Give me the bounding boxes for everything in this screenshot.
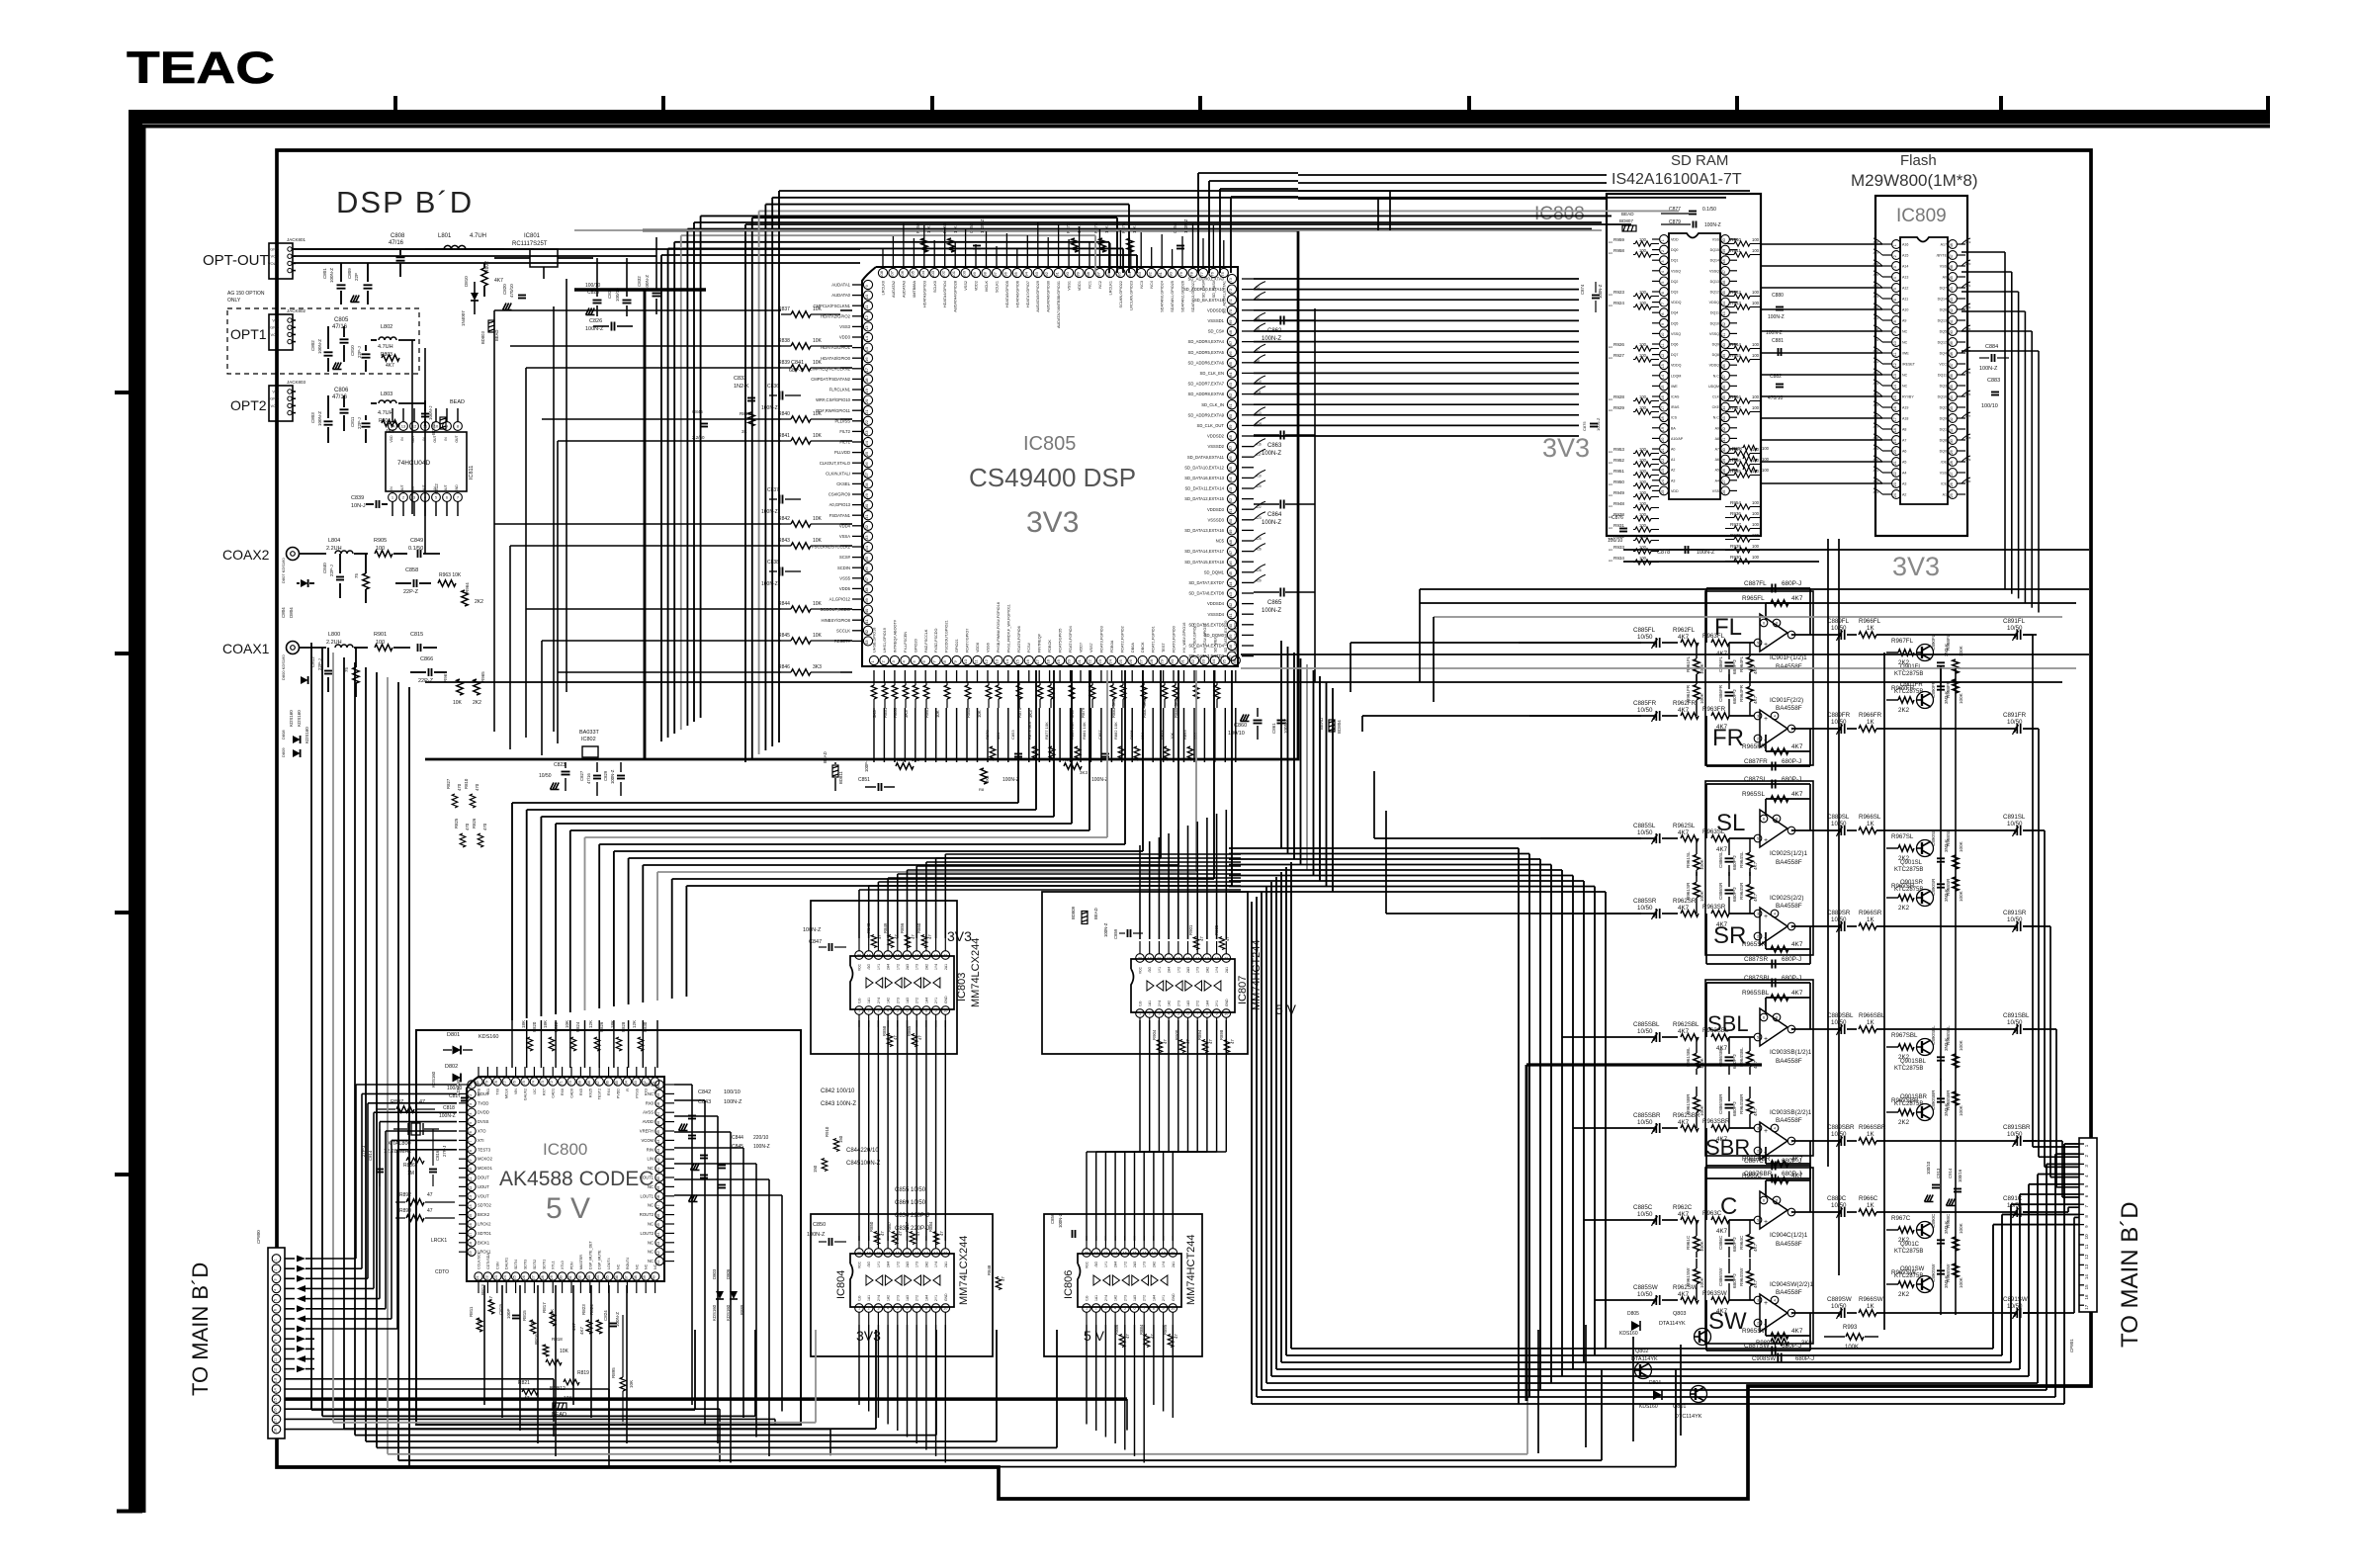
svg-text:DQ6: DQ6 bbox=[1671, 343, 1678, 347]
svg-text:XTL1: XTL1 bbox=[552, 1261, 556, 1269]
svg-text:R926: R926 bbox=[1613, 342, 1624, 347]
svg-text:100: 100 bbox=[1639, 534, 1647, 539]
diodes D803 D806 KDS160 bbox=[712, 1268, 744, 1321]
svg-text:4K7: 4K7 bbox=[1753, 665, 1758, 674]
svg-text:10: 10 bbox=[864, 294, 869, 299]
svg-text:100P-J: 100P-J bbox=[864, 758, 869, 772]
svg-text:14: 14 bbox=[915, 1251, 918, 1255]
svg-text:1Y3: 1Y3 bbox=[915, 964, 919, 970]
svg-text:R952: R952 bbox=[1613, 458, 1624, 463]
svg-text:KDS160: KDS160 bbox=[305, 727, 309, 743]
svg-text:100N-Z: 100N-Z bbox=[807, 1232, 826, 1238]
svg-text:10N-J: 10N-J bbox=[351, 503, 366, 509]
svg-text:1A3: 1A3 bbox=[1186, 1001, 1190, 1006]
svg-text:R965SBL: R965SBL bbox=[1742, 990, 1770, 997]
svg-text:DQ0: DQ0 bbox=[1940, 450, 1947, 454]
svg-text:C843 100N-Z: C843 100N-Z bbox=[821, 1101, 856, 1107]
svg-text:150: 150 bbox=[838, 1135, 843, 1143]
svg-text:6: 6 bbox=[469, 1131, 473, 1133]
svg-text:HV_WE#,GPIO16: HV_WE#,GPIO16 bbox=[1182, 623, 1186, 653]
svg-text:DQ9: DQ9 bbox=[1940, 417, 1947, 421]
svg-text:15: 15 bbox=[2084, 1284, 2089, 1290]
svg-text:10/50: 10/50 bbox=[2007, 1019, 2023, 1026]
svg-text:25: 25 bbox=[864, 451, 869, 456]
svg-text:100: 100 bbox=[1752, 394, 1760, 399]
svg-text:14: 14 bbox=[469, 1204, 473, 1208]
wire top pins risers bbox=[883, 222, 1224, 255]
svg-text:HDATA5/GPIO5: HDATA5/GPIO5 bbox=[1005, 281, 1009, 307]
resistor R963FR 4K7 bbox=[1702, 706, 1754, 731]
svg-text:4K7: 4K7 bbox=[1753, 1243, 1758, 1252]
svg-text:COAX1: COAX1 bbox=[222, 641, 270, 656]
svg-text:TEST: TEST bbox=[1162, 643, 1166, 653]
IC800 right pins bbox=[640, 1081, 674, 1265]
svg-text:470: 470 bbox=[465, 823, 470, 830]
bead BD809 bbox=[1071, 906, 1098, 923]
svg-text:1: 1 bbox=[1139, 1011, 1141, 1015]
svg-text:3: 3 bbox=[1757, 1126, 1759, 1130]
svg-text:24: 24 bbox=[864, 440, 869, 445]
svg-text:20: 20 bbox=[1138, 956, 1142, 960]
svg-text:5: 5 bbox=[1177, 1011, 1179, 1015]
svg-text:100: 100 bbox=[1639, 490, 1647, 495]
svg-text:DTC114YK: DTC114YK bbox=[1675, 1414, 1702, 1420]
svg-text:9: 9 bbox=[935, 1306, 937, 1310]
svg-text:8: 8 bbox=[274, 1329, 278, 1331]
svg-text:25: 25 bbox=[1118, 658, 1123, 663]
svg-text:2: 2 bbox=[1757, 934, 1759, 938]
svg-text:18: 18 bbox=[1046, 658, 1051, 663]
svg-text:A5: A5 bbox=[1715, 469, 1719, 473]
svg-text:5 V: 5 V bbox=[546, 1192, 590, 1225]
IC805 left pull-up resistors R837-R846 bbox=[778, 306, 840, 675]
svg-text:C810: C810 bbox=[350, 345, 355, 356]
svg-text:LRCLK0: LRCLK0 bbox=[882, 281, 886, 295]
resistor R966SR 1K bbox=[1859, 910, 2015, 929]
svg-text:D801: D801 bbox=[447, 1032, 460, 1038]
svg-text:68: 68 bbox=[587, 1081, 591, 1085]
svg-text:100: 100 bbox=[1639, 342, 1647, 347]
svg-text:C890C: C890C bbox=[1931, 1213, 1936, 1228]
svg-text:R964FL: R964FL bbox=[1739, 655, 1744, 672]
svg-text:C889SBL: C889SBL bbox=[1827, 1012, 1854, 1019]
svg-text:10/50: 10/50 bbox=[1831, 1303, 1847, 1310]
svg-text:64: 64 bbox=[624, 1081, 628, 1085]
svg-text:R948: R948 bbox=[1613, 501, 1624, 506]
resistor R890 47 bbox=[395, 1208, 455, 1221]
svg-text:C887SL: C887SL bbox=[1744, 776, 1768, 783]
svg-text:MASTER: MASTER bbox=[579, 1255, 583, 1269]
svg-text:R882 10K: R882 10K bbox=[1113, 722, 1118, 740]
svg-text:100N-Z: 100N-Z bbox=[615, 1312, 620, 1327]
svg-text:2A1: 2A1 bbox=[1225, 967, 1229, 973]
svg-text:19: 19 bbox=[864, 388, 869, 392]
svg-text:30: 30 bbox=[1950, 439, 1954, 443]
svg-text:SD_ADDR4,EXTA4: SD_ADDR4,EXTA4 bbox=[1188, 339, 1225, 344]
wire OPT-OUT long horizontals bbox=[294, 249, 860, 263]
svg-text:19: 19 bbox=[469, 1251, 473, 1255]
svg-text:1A1: 1A1 bbox=[867, 1295, 871, 1301]
svg-text:2Y2: 2Y2 bbox=[915, 1295, 919, 1301]
svg-text:DAUX1: DAUX1 bbox=[505, 1258, 509, 1269]
svg-text:IC808: IC808 bbox=[1534, 204, 1585, 224]
svg-text:C885FL: C885FL bbox=[1633, 627, 1656, 634]
svg-text:R963 10K: R963 10K bbox=[439, 572, 462, 578]
resistor R892 47 bbox=[395, 1192, 455, 1205]
svg-text:4K7: 4K7 bbox=[1678, 1119, 1690, 1126]
svg-text:4: 4 bbox=[1774, 1126, 1776, 1130]
svg-text:40: 40 bbox=[1722, 343, 1726, 347]
svg-text:680P-J: 680P-J bbox=[1732, 1101, 1737, 1116]
capacitor C880 100N-Z bbox=[1768, 293, 1785, 320]
svg-text:100N-Z: 100N-Z bbox=[761, 581, 778, 587]
svg-text:17: 17 bbox=[469, 1233, 473, 1237]
capacitor C831 100/10 bbox=[607, 258, 632, 316]
svg-text:VDDQ: VDDQ bbox=[1709, 364, 1720, 368]
svg-text:C891SBL: C891SBL bbox=[2003, 1012, 2030, 1019]
svg-text:1: 1 bbox=[858, 1008, 860, 1012]
svg-text:BEAD: BEAD bbox=[1621, 212, 1634, 217]
resistor R964SBL 4K7 shunt bbox=[1739, 1037, 1758, 1075]
IC804 bottom pins bbox=[855, 1304, 950, 1325]
svg-text:D805: D805 bbox=[1627, 1311, 1639, 1317]
svg-text:26: 26 bbox=[522, 1275, 526, 1279]
svg-text:1K: 1K bbox=[1867, 1019, 1874, 1026]
svg-text:100: 100 bbox=[1762, 446, 1770, 451]
svg-text:9: 9 bbox=[1163, 1306, 1165, 1310]
diode D810 1N4007 bbox=[461, 276, 479, 326]
svg-text:R966SR: R966SR bbox=[1859, 910, 1882, 916]
svg-text:VDDQ: VDDQ bbox=[1671, 364, 1682, 368]
svg-text:6: 6 bbox=[1763, 1015, 1765, 1019]
svg-text:17: 17 bbox=[1893, 417, 1897, 421]
svg-text:62: 62 bbox=[1228, 392, 1233, 397]
svg-text:BEAD: BEAD bbox=[1093, 908, 1098, 919]
schematic frame bbox=[277, 150, 2091, 1499]
svg-text:24: 24 bbox=[1107, 658, 1112, 663]
svg-text:8: 8 bbox=[1776, 817, 1778, 821]
svg-text:57: 57 bbox=[1228, 445, 1233, 450]
svg-text:C886SR: C886SR bbox=[1718, 882, 1723, 900]
svg-text:100N-Z: 100N-Z bbox=[724, 1099, 742, 1105]
svg-text:VDD: VDD bbox=[1671, 238, 1679, 242]
svg-text:10/50: 10/50 bbox=[1637, 634, 1653, 641]
svg-text:470: 470 bbox=[482, 823, 487, 830]
svg-text:A4: A4 bbox=[1609, 526, 1612, 530]
svg-text:IC903SB(1/2)1: IC903SB(1/2)1 bbox=[1770, 1049, 1812, 1056]
border top tick marks bbox=[395, 96, 2268, 110]
wire bus top-left nested group A bbox=[661, 216, 1612, 741]
svg-text:5: 5 bbox=[1757, 641, 1759, 645]
svg-text:16: 16 bbox=[896, 953, 900, 957]
capacitor C886FR 680P-J shunt bbox=[1718, 674, 1737, 716]
svg-text:BEAD: BEAD bbox=[450, 399, 465, 405]
resistor R821 47 bbox=[518, 1380, 538, 1402]
wire left area verticals bbox=[412, 279, 566, 732]
resistor R964FL 4K7 shunt bbox=[1739, 643, 1758, 680]
svg-text:C805: C805 bbox=[334, 317, 349, 323]
svg-text:100N-Z: 100N-Z bbox=[1262, 520, 1281, 526]
svg-text:SD_DATA15,EXTA18: SD_DATA15,EXTA18 bbox=[1184, 560, 1224, 565]
svg-text:A10/AP: A10/AP bbox=[1671, 437, 1684, 441]
svg-text:49: 49 bbox=[1722, 249, 1726, 253]
resistor R806 1M bbox=[403, 1158, 424, 1176]
svg-text:14: 14 bbox=[1142, 1251, 1146, 1255]
svg-text:39: 39 bbox=[864, 597, 869, 602]
svg-text:94: 94 bbox=[1023, 271, 1028, 276]
svg-text:33: 33 bbox=[864, 535, 869, 540]
svg-text:100: 100 bbox=[1752, 290, 1760, 295]
svg-text:72: 72 bbox=[1228, 288, 1233, 293]
svg-text:10/50: 10/50 bbox=[1637, 829, 1653, 836]
svg-text:C885SL: C885SL bbox=[1633, 823, 1656, 829]
wire buffer column links IC807 to IC806 bbox=[1087, 1020, 1226, 1241]
svg-text:CP801: CP801 bbox=[2069, 1339, 2074, 1352]
svg-text:47: 47 bbox=[1163, 1039, 1168, 1044]
svg-text:99: 99 bbox=[972, 271, 977, 276]
svg-text:18: 18 bbox=[1661, 416, 1665, 420]
svg-text:C914: C914 bbox=[1948, 1168, 1953, 1178]
svg-text:MM74LCX244: MM74LCX244 bbox=[958, 1236, 970, 1305]
svg-text:A12: A12 bbox=[1902, 287, 1908, 291]
resistor R964FR 4K7 shunt bbox=[1739, 674, 1758, 716]
capacitor C841 68P-J bbox=[789, 360, 804, 374]
buffer IC807 MM74HCT244 body bbox=[1131, 959, 1235, 1012]
svg-text:32: 32 bbox=[1190, 658, 1195, 663]
capacitor C801 100N-Z bbox=[322, 263, 346, 305]
wire long horizontals below DSP box bbox=[425, 654, 2089, 682]
svg-text:4: 4 bbox=[887, 1008, 889, 1012]
svg-text:73: 73 bbox=[1228, 277, 1233, 282]
svg-text:100: 100 bbox=[1752, 301, 1760, 305]
svg-text:23: 23 bbox=[1097, 658, 1102, 663]
capacitor C886SBL 680P-J shunt bbox=[1718, 1037, 1737, 1075]
svg-text:3: 3 bbox=[274, 1279, 278, 1281]
transistor Q901SW KTC2875B bbox=[1894, 1266, 1934, 1293]
svg-text:1Y1: 1Y1 bbox=[877, 964, 881, 970]
svg-text:IC903SB(2/2)1: IC903SB(2/2)1 bbox=[1770, 1109, 1812, 1116]
svg-text:A15: A15 bbox=[1902, 254, 1908, 258]
svg-text:65: 65 bbox=[1228, 361, 1233, 366]
svg-text:C808: C808 bbox=[391, 233, 405, 239]
capacitor C826 100N-Z bbox=[585, 318, 633, 332]
svg-text:CLKIN,XTALI: CLKIN,XTALI bbox=[826, 471, 850, 476]
op-amp group box SBL SBR bbox=[1705, 980, 1813, 1156]
resistor R965SW 4K7 feedback bbox=[1742, 1328, 1803, 1339]
IC805 left decoupling caps C836-C838 bbox=[761, 384, 801, 587]
svg-text:TO MAIN B´D: TO MAIN B´D bbox=[188, 1263, 213, 1396]
svg-text:TEST2: TEST2 bbox=[598, 1089, 602, 1099]
svg-text:100N-Z: 100N-Z bbox=[1262, 608, 1281, 614]
svg-text:C840: C840 bbox=[322, 563, 327, 573]
output capacitor C891SBR 10/50 bbox=[2003, 1124, 2037, 1147]
svg-text:47: 47 bbox=[1950, 254, 1954, 258]
svg-text:A22: A22 bbox=[1965, 305, 1971, 309]
svg-text:18K: 18K bbox=[543, 1020, 548, 1028]
resistor R963SBL 4K7 bbox=[1702, 1027, 1754, 1052]
svg-text:R827: R827 bbox=[446, 778, 451, 789]
wire buffers bottom to bottom bus bbox=[859, 1325, 1173, 1463]
svg-text:DQ8: DQ8 bbox=[1712, 353, 1719, 357]
svg-text:R929: R929 bbox=[1613, 405, 1624, 410]
svg-text:20: 20 bbox=[1661, 438, 1665, 442]
caps C913 C914 100/16 bbox=[1925, 1161, 1963, 1205]
svg-text:7: 7 bbox=[1893, 309, 1897, 311]
svg-text:20: 20 bbox=[1893, 450, 1897, 454]
svg-text:A16: A16 bbox=[1902, 243, 1908, 247]
svg-text:32: 32 bbox=[577, 1275, 581, 1279]
label IC901F(2/2) bbox=[1770, 697, 1803, 712]
resistor R966SW 1K bbox=[1859, 1296, 2015, 1316]
svg-text:680P-J: 680P-J bbox=[1732, 887, 1737, 902]
svg-text:HDATA3/GPIO3: HDATA3/GPIO3 bbox=[922, 281, 926, 307]
svg-text:14: 14 bbox=[1004, 658, 1009, 663]
svg-text:42: 42 bbox=[1722, 322, 1726, 326]
resistor R966FL 1K bbox=[1859, 618, 2015, 638]
svg-text:R968SR: R968SR bbox=[1946, 878, 1951, 896]
svg-text:2: 2 bbox=[469, 1094, 473, 1096]
svg-text:100N-Z: 100N-Z bbox=[439, 1113, 456, 1119]
svg-text:11: 11 bbox=[1661, 343, 1665, 347]
svg-text:KTC2875B: KTC2875B bbox=[1894, 689, 1923, 695]
svg-text:D802: D802 bbox=[445, 1064, 458, 1070]
diode D802 bbox=[445, 1064, 461, 1083]
svg-text:A0: A0 bbox=[1671, 448, 1675, 452]
resistor R852 3K3 bbox=[895, 757, 920, 769]
svg-text:XTL0: XTL0 bbox=[561, 1261, 565, 1269]
wire codec right nested to buffers bbox=[674, 1085, 782, 1463]
svg-text:R924: R924 bbox=[1613, 301, 1624, 305]
svg-text:VDD1: VDD1 bbox=[1078, 281, 1082, 291]
svg-text:6: 6 bbox=[1763, 1198, 1765, 1202]
svg-text:16: 16 bbox=[1893, 406, 1897, 410]
wire feedback loop SBL bbox=[1706, 983, 1822, 1037]
svg-text:18: 18 bbox=[864, 378, 869, 383]
svg-text:19: 19 bbox=[1148, 956, 1152, 960]
svg-text:MM74HCT244: MM74HCT244 bbox=[1185, 1234, 1197, 1305]
inverter IC811 74HCU04D bbox=[386, 408, 475, 516]
svg-text:17: 17 bbox=[886, 1251, 890, 1255]
caps C842 C843 list right bbox=[821, 1089, 856, 1107]
svg-text:R: R bbox=[626, 1089, 630, 1091]
svg-text:VSS: VSS bbox=[1940, 265, 1948, 269]
svg-text:23: 23 bbox=[1893, 482, 1897, 486]
svg-text:R8: R8 bbox=[979, 787, 985, 792]
bead BD804 bbox=[1319, 717, 1342, 734]
IC804 top resistors 47 bbox=[869, 1221, 944, 1244]
svg-text:33: 33 bbox=[1950, 406, 1954, 410]
svg-text:42: 42 bbox=[1950, 308, 1954, 312]
svg-text:16: 16 bbox=[896, 1251, 900, 1255]
capacitor C849 0.1/50 bbox=[408, 538, 440, 558]
svg-text:96: 96 bbox=[1002, 271, 1007, 276]
svg-text:100: 100 bbox=[1752, 511, 1760, 516]
svg-text:18: 18 bbox=[876, 1251, 880, 1255]
svg-text:66: 66 bbox=[1228, 351, 1233, 356]
svg-text:A5: A5 bbox=[1902, 461, 1906, 465]
capacitor C887SL 680P-J feedback bbox=[1744, 776, 1801, 789]
svg-text:16: 16 bbox=[2084, 1294, 2089, 1300]
svg-text:+: + bbox=[1764, 642, 1768, 649]
svg-text:C885SBR: C885SBR bbox=[1633, 1112, 1661, 1119]
svg-text:NC: NC bbox=[648, 1240, 654, 1245]
IC807 buffer triangles bbox=[1147, 981, 1221, 991]
svg-text:BD809: BD809 bbox=[1071, 906, 1076, 919]
svg-text:C827: C827 bbox=[579, 770, 584, 781]
svg-text:SD_WE#: SD_WE# bbox=[1213, 636, 1217, 653]
svg-text:C845: C845 bbox=[732, 1144, 743, 1150]
svg-text:R905: R905 bbox=[374, 538, 387, 544]
svg-text:/OE: /OE bbox=[1941, 461, 1948, 465]
svg-text:DQ7: DQ7 bbox=[1671, 353, 1678, 357]
resistor R967 10K 2K2 bbox=[443, 671, 485, 706]
border left bar bbox=[117, 110, 144, 1513]
svg-text:SD_ADDR8,EXTA8: SD_ADDR8,EXTA8 bbox=[1188, 392, 1225, 396]
svg-text:100N-Z: 100N-Z bbox=[1262, 451, 1281, 457]
svg-text:R803: R803 bbox=[381, 352, 392, 358]
svg-text:IC804: IC804 bbox=[835, 1270, 847, 1299]
codec top pull resistors 18K 12K bbox=[521, 1020, 648, 1051]
IC806 buffer triangles bbox=[1093, 1275, 1168, 1285]
svg-text:R9: R9 bbox=[1732, 457, 1738, 462]
svg-text:12K: 12K bbox=[588, 1020, 593, 1028]
svg-text:100K: 100K bbox=[1959, 840, 1963, 852]
capacitor C846 2.2/50 bbox=[692, 409, 708, 440]
svg-text:C804: C804 bbox=[281, 607, 286, 618]
svg-text:58: 58 bbox=[1228, 434, 1233, 439]
IC800 part number text bbox=[499, 1140, 654, 1225]
resistor R968SR 100K bbox=[1946, 877, 1963, 902]
diodes KDS160 column D808 D809 bbox=[281, 710, 309, 757]
svg-text:4K7: 4K7 bbox=[579, 1326, 584, 1335]
svg-text:51: 51 bbox=[656, 1168, 660, 1172]
svg-text:14: 14 bbox=[1195, 956, 1199, 960]
svg-text:VSS: VSS bbox=[1712, 489, 1720, 493]
svg-text:100: 100 bbox=[1752, 555, 1760, 560]
svg-text:NC: NC bbox=[648, 1259, 654, 1263]
IC805 right net stubs bbox=[1254, 282, 1265, 583]
svg-text:2Y3: 2Y3 bbox=[1123, 1295, 1127, 1301]
svg-text:R825: R825 bbox=[454, 818, 459, 828]
svg-text:24: 24 bbox=[1893, 493, 1897, 497]
svg-text:68P-J: 68P-J bbox=[789, 368, 804, 374]
capacitor C832 100N-Z bbox=[637, 237, 661, 314]
svg-text:56: 56 bbox=[656, 1121, 660, 1125]
svg-text:C855 10/50: C855 10/50 bbox=[895, 1187, 926, 1193]
wire buffers top to DSP bottom bus bbox=[859, 810, 1241, 939]
svg-text:KDS160: KDS160 bbox=[1619, 1331, 1638, 1337]
wire op-amp output joins to risers bbox=[2023, 635, 2079, 1313]
svg-text:100N-Z: 100N-Z bbox=[1091, 777, 1108, 783]
svg-text:R965: R965 bbox=[480, 671, 485, 682]
svg-text:15: 15 bbox=[1185, 956, 1189, 960]
transistor Q901SR KTC2875B bbox=[1894, 880, 1934, 907]
svg-text:SD_BA,EXTA19: SD_BA,EXTA19 bbox=[1194, 298, 1225, 303]
svg-text:R964SBR: R964SBR bbox=[1739, 1093, 1744, 1114]
wire bus top-left nested group B bbox=[745, 191, 1750, 762]
svg-text:50: 50 bbox=[1722, 238, 1726, 242]
svg-text:FLRCLKN1: FLRCLKN1 bbox=[829, 388, 851, 392]
svg-text:10: 10 bbox=[469, 1168, 473, 1172]
svg-text:AUDATA6/GPIO30: AUDATA6/GPIO30 bbox=[1047, 281, 1051, 312]
svg-text:FDAT3,FGPIO3: FDAT3,FGPIO3 bbox=[1099, 626, 1103, 653]
svg-text:BD803: BD803 bbox=[480, 331, 485, 344]
svg-text:A4: A4 bbox=[1609, 408, 1612, 412]
svg-text:7: 7 bbox=[1661, 303, 1665, 305]
svg-text:5: 5 bbox=[1757, 836, 1759, 840]
svg-text:3: 3 bbox=[1104, 1306, 1106, 1310]
svg-text:R961C: R961C bbox=[1686, 1235, 1691, 1250]
